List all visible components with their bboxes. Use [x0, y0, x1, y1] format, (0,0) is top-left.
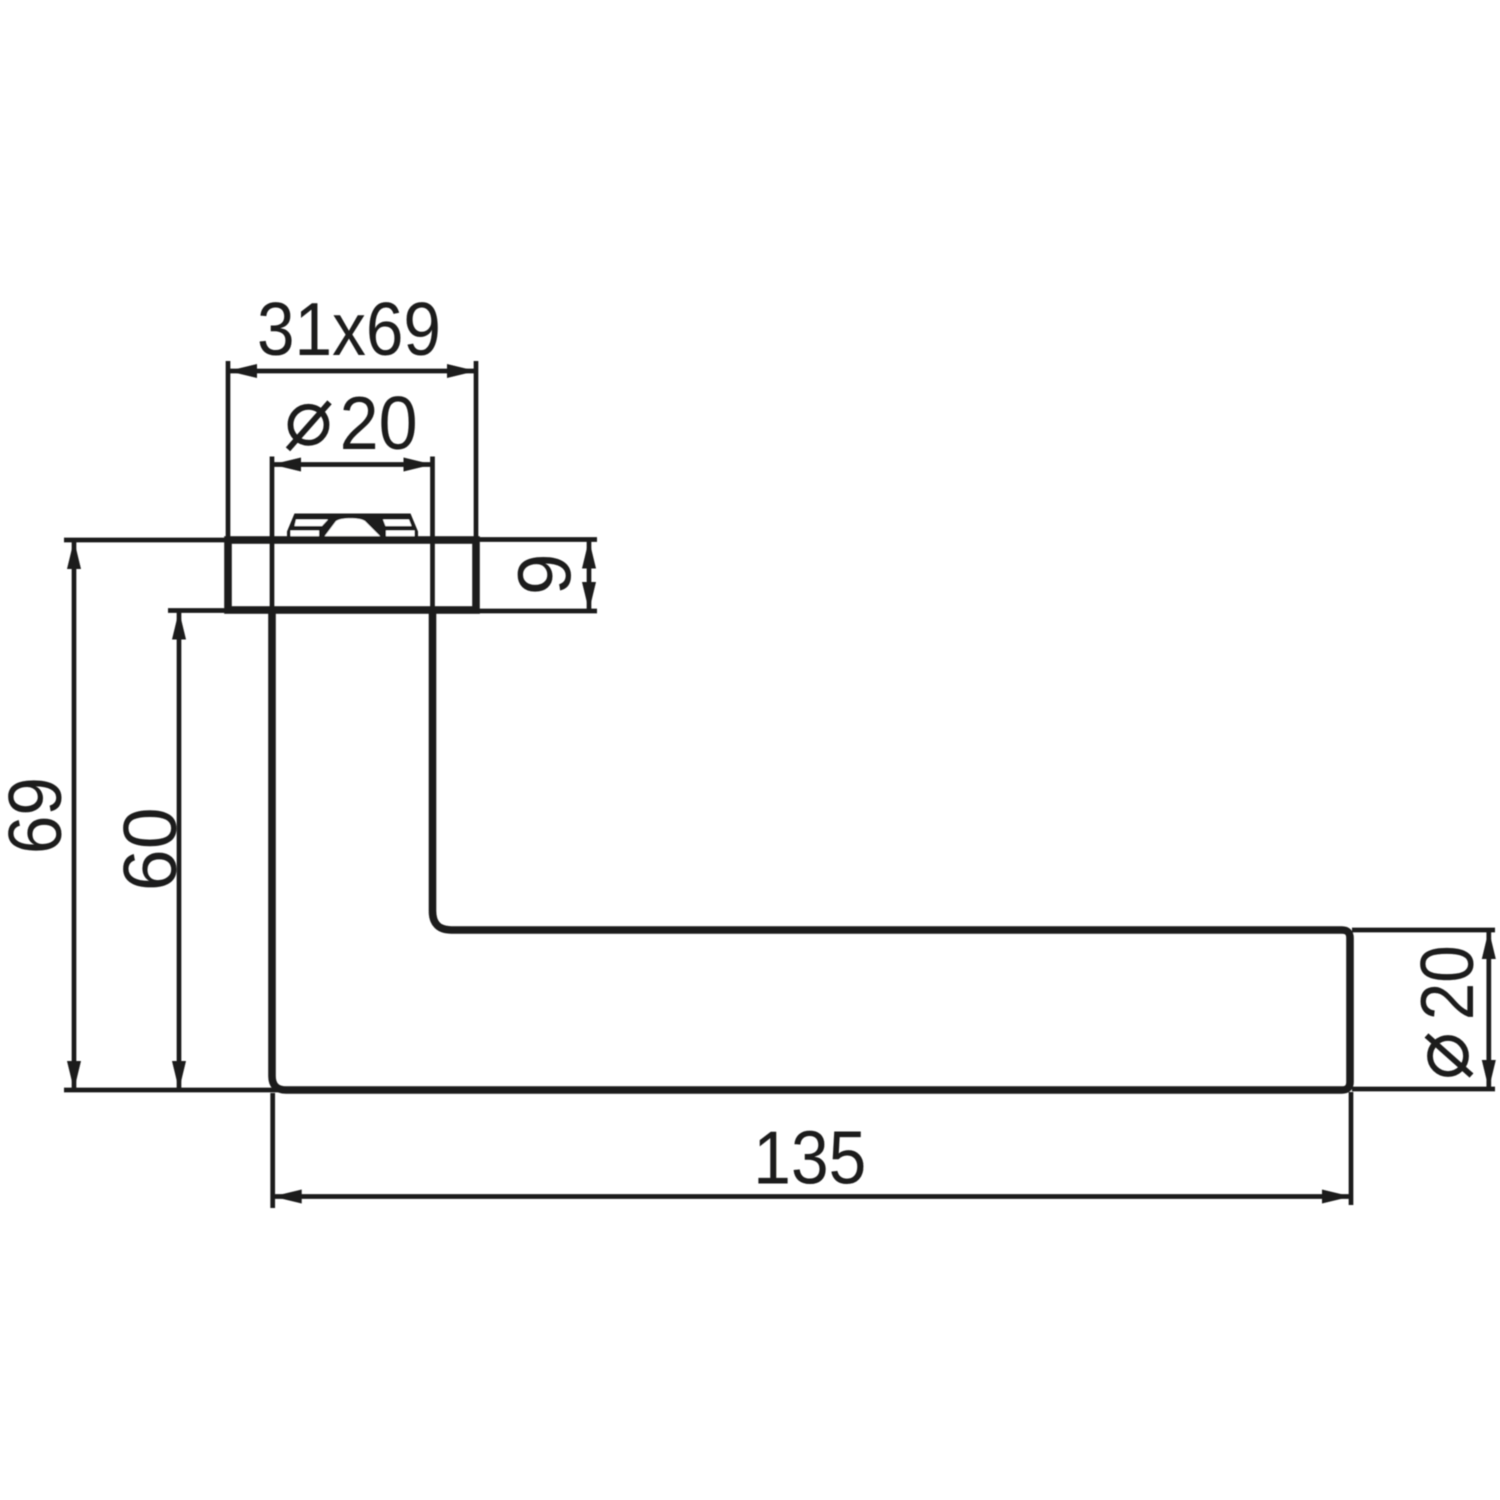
dimension 31x69 line: [228, 369, 476, 374]
svg-text:20: 20: [1405, 945, 1489, 1020]
dimension Ø20 top line: [272, 462, 433, 467]
label Ø20 right: [1430, 1038, 1466, 1074]
dimension 69 extension lines: [64, 538, 228, 543]
dimension 9 line: [587, 540, 592, 612]
dimension 135 line: [273, 1194, 1351, 1199]
dimension Ø20 top extension lines: [270, 457, 275, 612]
svg-text:135: 135: [753, 1116, 866, 1200]
dimension 31x69 extension lines: [226, 361, 231, 537]
svg-text:20: 20: [340, 381, 418, 465]
svg-text:60: 60: [108, 807, 192, 891]
svg-text:31x69: 31x69: [257, 287, 441, 371]
dimension 69 line: [72, 540, 77, 1090]
svg-text:69: 69: [0, 777, 77, 854]
dimension 60 extension line: [168, 608, 228, 613]
dimension 135 extension lines: [270, 1093, 275, 1208]
spindle hub on top of rose: [287, 514, 418, 538]
handle outline (lever): [272, 608, 1350, 1090]
label Ø20 top: [291, 407, 327, 443]
dimension Ø20 right line: [1486, 930, 1491, 1089]
svg-text:9: 9: [503, 553, 587, 595]
dimension 60 line: [177, 611, 182, 1091]
dimension 9 extension lines: [476, 537, 597, 542]
rose plate rectangle: [228, 540, 476, 610]
dimension Ø20 right extension lines: [1352, 928, 1495, 933]
